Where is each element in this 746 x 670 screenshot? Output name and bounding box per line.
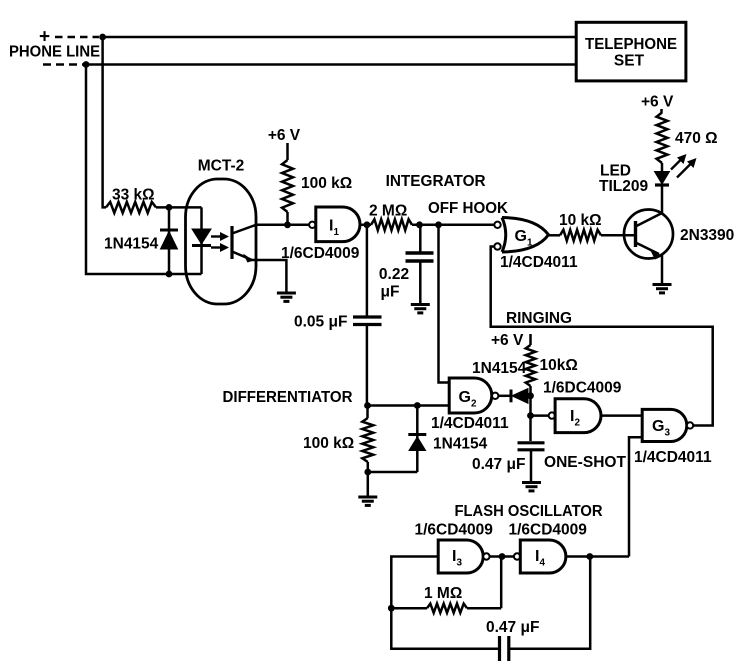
wire I2 to G3 xyxy=(601,414,642,417)
label 1/6CD4009 I4 xyxy=(509,522,588,539)
label 470 Ohm xyxy=(675,130,718,147)
op-amp I2 1/6DC4009 xyxy=(555,399,601,433)
wire I4 out up to G3 input xyxy=(629,437,642,556)
capacitor 0.47 uF flash xyxy=(500,636,509,661)
svg-text:G1: G1 xyxy=(515,228,533,249)
junction I2 input tap xyxy=(527,412,534,419)
svg-text:I4: I4 xyxy=(535,548,545,569)
label 1/4CD4011 G1 xyxy=(500,254,578,271)
capacitor 0.05 uF xyxy=(353,317,382,406)
label 10 kOhm base xyxy=(559,212,602,229)
svg-text:1/6CD4009: 1/6CD4009 xyxy=(281,245,360,262)
svg-text:1N4154: 1N4154 xyxy=(433,436,488,453)
svg-text:1/4CD4011: 1/4CD4011 xyxy=(500,254,578,271)
diode 1N4154 line clamp xyxy=(160,207,178,274)
junction bottom rail xyxy=(83,61,90,68)
wire 1M up to I3-I4 node xyxy=(500,557,503,609)
wire opto emitter to ground xyxy=(251,260,286,293)
wire G2 to diode xyxy=(498,395,511,398)
wire I4 output xyxy=(566,555,629,558)
label 2N3390 xyxy=(680,227,734,244)
label 33 kOhm xyxy=(112,187,155,204)
label 1/6CD4009 I1 xyxy=(281,245,360,262)
resistor 10 kOhm base xyxy=(560,230,601,241)
wire 100k bottom to diode xyxy=(368,471,418,474)
svg-text:10kΩ: 10kΩ xyxy=(540,357,578,374)
label 1/4CD4011 G2 xyxy=(431,415,509,432)
svg-text:1N4154: 1N4154 xyxy=(472,360,527,377)
svg-text:PHONE LINE: PHONE LINE xyxy=(9,44,100,61)
wire +6V to 470 xyxy=(660,109,663,113)
wire - rail drop to opto cathode rail xyxy=(86,65,202,275)
svg-text:0.47 μF: 0.47 μF xyxy=(486,619,539,636)
svg-text:LED: LED xyxy=(600,163,631,180)
svg-text:1/6CD4009: 1/6CD4009 xyxy=(509,522,588,539)
svg-text:SET: SET xyxy=(614,53,645,70)
svg-text:2 MΩ: 2 MΩ xyxy=(369,203,407,220)
svg-text:DIFFERENTIATOR: DIFFERENTIATOR xyxy=(223,389,353,406)
label 1 MOhm xyxy=(424,585,462,602)
resistor 10 kOhm one-shot xyxy=(526,345,536,386)
svg-text:100 kΩ: 100 kΩ xyxy=(301,175,352,192)
op-amp G1 input bubble top xyxy=(494,222,500,228)
svg-text:TIL209: TIL209 xyxy=(599,178,648,195)
wire 10k to diode node xyxy=(529,386,532,396)
junction differentiator node xyxy=(364,402,371,409)
junction opto collector node xyxy=(284,221,291,228)
svg-text:I3: I3 xyxy=(452,548,462,569)
svg-text:+6 V: +6 V xyxy=(641,94,674,111)
junction clamp diode top xyxy=(414,402,421,409)
LED TIL209 xyxy=(655,163,670,185)
op-amp I2 input bubble xyxy=(549,412,555,418)
label 100 kOhm differentiator xyxy=(303,435,354,452)
wire differentiator node to G2 xyxy=(367,404,449,407)
label 100 kOhm pullup xyxy=(301,175,352,192)
resistor 470 Ohm xyxy=(657,113,668,164)
label 0.47 uF one-shot xyxy=(472,456,525,473)
label TIL209 xyxy=(599,178,648,195)
svg-text:470 Ω: 470 Ω xyxy=(675,130,718,147)
svg-text:1/6DC4009: 1/6DC4009 xyxy=(543,380,622,397)
op-amp I1 input bubble xyxy=(309,222,315,228)
svg-text:G2: G2 xyxy=(459,389,477,410)
junction off hook tap xyxy=(435,221,442,228)
svg-text:+6 V: +6 V xyxy=(268,127,301,144)
svg-text:2N3390: 2N3390 xyxy=(680,227,734,244)
wire I1 out down to 0.05uF xyxy=(366,225,369,316)
label ONE-SHOT xyxy=(544,454,627,471)
junction diode bottom xyxy=(166,271,173,278)
wire I3 out to I4 in xyxy=(490,555,514,558)
junction I3-I4 node xyxy=(499,553,506,560)
label MCT-2 xyxy=(198,158,245,175)
capacitor 0.47 uF one-shot xyxy=(518,443,545,483)
svg-text:1N4154: 1N4154 xyxy=(104,236,159,253)
ground differentiator xyxy=(358,497,377,505)
op-amp I3 1/6CD4009 xyxy=(438,540,483,573)
junction I1 output xyxy=(364,221,371,228)
resistor 100 kOhm differentiator xyxy=(362,406,373,473)
wire I1 output xyxy=(360,224,371,227)
label 1N4154 one-shot xyxy=(472,360,527,377)
svg-text:1/4CD4011: 1/4CD4011 xyxy=(634,449,712,466)
label INTEGRATOR xyxy=(386,173,486,190)
resistor 2 MOhm xyxy=(371,219,412,230)
svg-text:OFF HOOK: OFF HOOK xyxy=(428,200,509,217)
svg-text:ONE-SHOT: ONE-SHOT xyxy=(544,454,627,471)
ground 0.22 uF xyxy=(411,305,430,313)
diode 1N4154 differentiator clamp xyxy=(408,406,426,473)
svg-text:+6 V: +6 V xyxy=(491,332,524,349)
svg-text:0.05 μF: 0.05 μF xyxy=(294,314,347,331)
svg-text:TELEPHONE: TELEPHONE xyxy=(585,36,677,53)
junction integrator cap tap xyxy=(416,221,423,228)
junction 100k bottom xyxy=(364,469,371,476)
label RINGING xyxy=(506,310,572,327)
label LED xyxy=(600,163,631,180)
junction 1M left xyxy=(388,605,395,612)
opto LED xyxy=(192,207,211,274)
wire collector to LED xyxy=(661,186,664,214)
svg-text:0.22: 0.22 xyxy=(379,266,409,283)
svg-text:I2: I2 xyxy=(570,408,580,429)
label 1N4154 clamp xyxy=(104,236,159,253)
op-amp G2 1/4CD4011 xyxy=(449,378,492,413)
opto phototransistor xyxy=(232,225,256,263)
wire opto collector to I1 xyxy=(256,224,309,227)
resistor 33 kOhm xyxy=(106,202,156,213)
op-amp I4 input bubble xyxy=(514,553,520,559)
diode 1N4154 one-shot xyxy=(511,389,531,404)
label 0.22 uF xyxy=(379,266,409,301)
junction diode top xyxy=(166,204,173,211)
svg-text:I1: I1 xyxy=(329,218,339,239)
wire cap to I4 output node xyxy=(509,557,590,649)
svg-text:FLASH OSCILLATOR: FLASH OSCILLATOR xyxy=(455,503,603,520)
svg-text:0.47 μF: 0.47 μF xyxy=(472,456,525,473)
wire ringing G3 out to G1 input xyxy=(491,247,713,426)
label 0.47 uF flash xyxy=(486,619,539,636)
svg-text:1 MΩ: 1 MΩ xyxy=(424,585,462,602)
ground one-shot xyxy=(522,483,541,491)
wire + rail drop to 33k xyxy=(103,37,106,207)
resistor 1 MOhm xyxy=(391,604,501,613)
wire 100k to node xyxy=(286,212,289,225)
wire +6V to 100k xyxy=(286,143,289,160)
op-amp I1 1/6CD4009 xyxy=(316,207,360,242)
resistor 100 kOhm pullup xyxy=(282,160,293,212)
wire bottom rail (-) to telephone set xyxy=(86,63,577,66)
power +6 V (one-shot) xyxy=(491,332,524,349)
node phone line - terminal xyxy=(43,63,83,66)
op-amp I3 output bubble xyxy=(483,553,489,559)
power +6 V (opto pullup) xyxy=(268,127,301,144)
label 0.05 uF xyxy=(294,314,347,331)
junction I4 output xyxy=(586,553,593,560)
op-amp G1 1/4CD4011 xyxy=(502,218,549,253)
ground transistor xyxy=(653,285,672,293)
svg-text:33 kΩ: 33 kΩ xyxy=(112,187,155,204)
op-amp I4 1/6CD4009 xyxy=(520,540,566,573)
svg-text:INTEGRATOR: INTEGRATOR xyxy=(386,173,486,190)
wire 2M to G1 xyxy=(412,224,494,227)
svg-text:μF: μF xyxy=(381,284,400,301)
ground opto emitter xyxy=(277,293,296,301)
node phone line + terminal xyxy=(39,27,99,48)
wire I3 input loop xyxy=(391,557,499,649)
svg-text:MCT-2: MCT-2 xyxy=(198,158,245,175)
wire emitter to ground xyxy=(661,255,664,285)
power +6 V (LED) xyxy=(641,94,674,111)
op-amp G3 1/4CD4011 xyxy=(642,409,687,441)
wire 10k to base xyxy=(601,234,636,237)
opto light arrow 1 xyxy=(211,232,229,241)
svg-text:100 kΩ: 100 kΩ xyxy=(303,435,354,452)
op-amp G3 output bubble xyxy=(687,422,693,428)
node PHONE LINE label xyxy=(9,44,100,61)
svg-text:10 kΩ: 10 kΩ xyxy=(559,212,602,229)
label 1N4154 differentiator xyxy=(433,436,488,453)
wire off hook down to G2 xyxy=(439,225,450,383)
transistor Q1 2N3390 xyxy=(624,210,673,260)
label FLASH OSCILLATOR xyxy=(455,503,603,520)
svg-text:G3: G3 xyxy=(652,418,670,439)
LED light arrow 2 xyxy=(677,158,697,178)
LED light arrow 1 xyxy=(671,154,687,170)
label 2 MOhm xyxy=(369,203,407,220)
op-amp G2 output bubble xyxy=(492,393,498,399)
junction one-shot node xyxy=(527,392,534,399)
capacitor 0.22 uF xyxy=(406,225,434,305)
op-amp G1 input bubble bottom xyxy=(494,243,500,249)
svg-text:RINGING: RINGING xyxy=(506,310,572,327)
wire 33k to diode node xyxy=(156,206,202,209)
wire top rail (+) to telephone set xyxy=(103,36,577,39)
label OFF HOOK xyxy=(428,200,509,217)
wire tap to I2 xyxy=(531,414,549,417)
junction top rail xyxy=(99,34,106,41)
wire G1 out to 10k xyxy=(549,234,561,237)
wire 100k to ground xyxy=(367,472,370,497)
svg-text:1/6CD4009: 1/6CD4009 xyxy=(415,522,494,539)
label 1/6CD4009 I3 xyxy=(415,522,494,539)
label 1/4CD4011 G3 xyxy=(634,449,712,466)
label 1/6DC4009 I2 xyxy=(543,380,622,397)
label 10kOhm one-shot xyxy=(540,357,578,374)
wire +6V to 10k xyxy=(529,334,532,345)
telephone set box xyxy=(576,22,686,81)
label DIFFERENTIATOR xyxy=(223,389,353,406)
optocoupler MCT-2 outline xyxy=(186,179,257,304)
svg-text:1/4CD4011: 1/4CD4011 xyxy=(431,415,509,432)
wire node down to I2 tap xyxy=(529,396,532,441)
opto light arrow 2 xyxy=(211,243,229,252)
